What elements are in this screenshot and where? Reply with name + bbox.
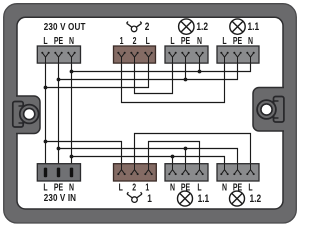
node lamp1.1-bottom PE junction bbox=[184, 147, 188, 151]
lamp symbol 1.2 bottom bbox=[230, 191, 245, 206]
node lamp1.1-bottom N junction bbox=[171, 155, 175, 159]
svg-text:L: L bbox=[248, 181, 252, 193]
wire switch1 terminal2 to lamp1.2-bottom L bbox=[135, 134, 251, 164]
node N-out tap bbox=[70, 70, 74, 74]
svg-text:2: 2 bbox=[132, 181, 136, 193]
switch symbol 1 bottom bbox=[127, 192, 142, 202]
node N-in tap bbox=[70, 155, 74, 159]
node lamp1.2-top PE junction bbox=[184, 78, 188, 82]
svg-text:L: L bbox=[170, 35, 174, 47]
svg-text:230 V IN: 230 V IN bbox=[44, 192, 77, 203]
clamp terminals 230V OUT bbox=[41, 52, 75, 63]
svg-text:2: 2 bbox=[133, 35, 137, 47]
clamp terminals switch-2 bbox=[117, 52, 152, 63]
svg-text:L: L bbox=[43, 35, 47, 47]
wire PE vertical OUT to IN bbox=[58, 63, 60, 165]
wire switch1 terminal1 to lamp1.1-bottom L bbox=[149, 142, 200, 164]
svg-text:1.1: 1.1 bbox=[248, 21, 260, 33]
svg-text:1.2: 1.2 bbox=[250, 193, 262, 205]
svg-text:L: L bbox=[43, 181, 47, 193]
left mounting tab bbox=[16, 96, 40, 134]
frame inner outline bbox=[17, 17, 283, 209]
wire switch2 terminal2 to lamp1.2-top L bbox=[135, 63, 173, 93]
230V IN terminal pins bbox=[44, 168, 73, 178]
svg-text:1: 1 bbox=[147, 193, 152, 205]
svg-text:1.1: 1.1 bbox=[198, 193, 210, 205]
connector 230V OUT block bbox=[37, 46, 80, 63]
svg-text:230 V OUT: 230 V OUT bbox=[44, 21, 86, 32]
clamp terminals switch-1 bbox=[117, 164, 152, 175]
wire PE bus top bbox=[59, 63, 238, 79]
svg-text:N: N bbox=[170, 181, 175, 193]
svg-text:L: L bbox=[197, 181, 201, 193]
clamp terminals lamp 1.2 bottom bbox=[220, 164, 254, 175]
left tab screw hole bbox=[24, 108, 35, 119]
connector 230V IN block bbox=[37, 164, 80, 181]
wire N vertical OUT to IN bbox=[71, 63, 73, 165]
svg-text:N: N bbox=[197, 35, 202, 47]
connector switch-2 block bbox=[114, 46, 156, 63]
wire lamp1.1-bottom PE drop bbox=[185, 149, 187, 164]
lamp symbol 1.1 bottom bbox=[178, 191, 193, 206]
wire N bus bottom bbox=[72, 157, 225, 164]
svg-text:N: N bbox=[69, 181, 74, 193]
node PE-out tap bbox=[57, 78, 61, 82]
connector lamp 1.1 bottom block bbox=[165, 164, 208, 181]
clamp terminals lamp 1.2 top bbox=[168, 52, 203, 63]
svg-text:1: 1 bbox=[120, 35, 124, 47]
wire L vertical OUT to IN bbox=[45, 63, 47, 165]
wire N bus top bbox=[72, 63, 251, 71]
svg-text:2: 2 bbox=[145, 21, 150, 33]
connector lamp 1.2 bottom block bbox=[217, 164, 259, 181]
wire switch2 terminal1 to lamp1.1-top L bbox=[122, 63, 225, 102]
svg-text:L: L bbox=[146, 35, 150, 47]
clamp terminals lamp 1.1 top bbox=[220, 52, 254, 63]
wire lamp1.1-bottom N drop bbox=[172, 157, 174, 164]
svg-text:PE: PE bbox=[233, 35, 243, 47]
node L-in tap bbox=[44, 140, 48, 144]
node PE-in tap bbox=[57, 147, 61, 151]
clamp terminals lamp 1.1 bottom bbox=[168, 164, 203, 175]
right mounting tab bbox=[253, 88, 284, 132]
connector lamp 1.1 top block bbox=[217, 46, 259, 63]
svg-text:PE: PE bbox=[54, 35, 64, 47]
node L-out tap bbox=[44, 86, 48, 90]
connector switch-1 block bbox=[114, 164, 157, 181]
svg-text:L: L bbox=[222, 35, 226, 47]
wire lamp1.2-top N drop bbox=[199, 63, 201, 71]
svg-text:L: L bbox=[119, 181, 123, 193]
svg-text:1: 1 bbox=[145, 181, 149, 193]
wire lamp1.2-top PE drop bbox=[185, 63, 187, 79]
right tab screw hole bbox=[261, 104, 272, 115]
svg-text:N: N bbox=[69, 35, 74, 47]
wire PE bus bottom bbox=[59, 149, 238, 164]
svg-text:1.2: 1.2 bbox=[196, 21, 208, 33]
svg-text:N: N bbox=[222, 181, 227, 193]
right tab latch emblem bbox=[274, 97, 284, 123]
svg-text:PE: PE bbox=[181, 35, 191, 47]
connector lamp 1.2 top block bbox=[165, 46, 208, 63]
node lamp1.2-top N junction bbox=[198, 70, 202, 74]
left tab latch emblem bbox=[13, 102, 23, 128]
switch symbol 2 top bbox=[127, 22, 142, 32]
lamp symbol 1.2 top bbox=[179, 19, 194, 34]
left tab screw ring bbox=[20, 105, 39, 124]
wire L line bottom to switch1 bbox=[46, 142, 122, 164]
wire L bus top to switch2 bbox=[46, 63, 149, 87]
right tab screw ring bbox=[257, 100, 276, 119]
svg-text:PE: PE bbox=[54, 181, 64, 193]
svg-text:N: N bbox=[248, 35, 253, 47]
lamp symbol 1.1 top bbox=[230, 19, 245, 34]
